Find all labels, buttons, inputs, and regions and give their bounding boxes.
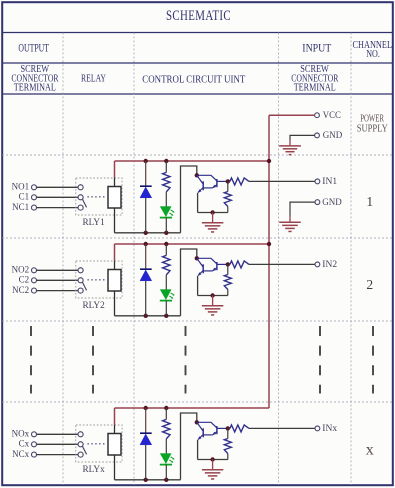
- wire emitter rail: [198, 459, 228, 461]
- wire IN2: [249, 263, 315, 265]
- row separator ch1/ch2: [2, 237, 393, 239]
- junction collector node: [195, 173, 199, 177]
- resistor series LED R2a: [163, 244, 170, 290]
- transistor Qxa: [197, 422, 204, 440]
- ground transistor emitter: [202, 296, 224, 315]
- wire emitter to rail: [197, 276, 199, 296]
- wire coil feed: [114, 408, 116, 434]
- junction diode top: [144, 406, 148, 410]
- svg-text:NC2: NC2: [12, 285, 29, 295]
- transistor Q2b: [197, 258, 228, 271]
- terminal NO1: [12, 182, 37, 192]
- wire coil bottom lead: [114, 455, 116, 480]
- resistor input R1c: [230, 178, 249, 185]
- relay RLY2 dashed box: [76, 261, 122, 298]
- wire INx: [249, 427, 315, 429]
- svg-text:2: 2: [366, 277, 373, 292]
- resistor input R2c: [230, 261, 249, 268]
- relay switch arm: [82, 282, 86, 290]
- wire coil bottom lead: [114, 208, 116, 233]
- wire C2 to relay contact: [36, 279, 78, 281]
- junction collector node: [195, 420, 199, 424]
- wire GND channel 1: [290, 202, 315, 215]
- wire C1 to relay contact: [36, 196, 78, 198]
- svg-text:GND: GND: [323, 131, 343, 141]
- relay actuator dotted link: [88, 196, 106, 198]
- wire VCC bus channel x: [115, 407, 270, 409]
- continuation dashes relay column: [92, 326, 94, 394]
- relay switch arm: [82, 199, 86, 207]
- label POWER SUPPLY: [357, 114, 388, 135]
- column separator 3: [278, 33, 280, 486]
- LED indicator LED1: [160, 207, 175, 233]
- relay contact NCx: [78, 452, 83, 457]
- relay actuator dotted link: [88, 279, 106, 281]
- svg-text:NO1: NO1: [12, 182, 30, 192]
- relay coil RLY2: [108, 270, 121, 292]
- relay contact NOx: [78, 432, 83, 437]
- wire VCC bus channel 1: [115, 160, 270, 162]
- continuation dashes input column: [319, 326, 321, 394]
- terminal GND power: [315, 133, 320, 138]
- ground power supply: [279, 140, 301, 155]
- wire NC2 to relay contact: [36, 290, 78, 292]
- transistor Qxb: [197, 422, 228, 435]
- terminal IN1: [315, 177, 337, 187]
- wire emitter to rail: [197, 193, 199, 213]
- terminal NC2: [12, 285, 36, 295]
- wire emitter to rail: [197, 440, 199, 460]
- row separator power/ch1: [2, 154, 393, 156]
- continuation dashes channel column: [372, 326, 374, 394]
- wire bus riser to collector: [181, 166, 197, 233]
- relay coil RLY1: [108, 187, 121, 209]
- wire VCC vertical bus: [268, 115, 270, 408]
- terminal Cx: [19, 439, 37, 449]
- wire emitter rail: [198, 212, 228, 214]
- wire coil feed: [114, 161, 116, 187]
- svg-text:NOx: NOx: [12, 429, 30, 439]
- junction ground rail: [210, 293, 214, 297]
- junction led bottom: [164, 231, 168, 235]
- wire coil feed: [114, 244, 116, 270]
- junction resistor top: [164, 406, 168, 410]
- wire NO2 to relay contact: [36, 269, 78, 271]
- junction collector node: [195, 256, 199, 260]
- resistor input Rxc: [230, 425, 249, 432]
- svg-text:TERMINAL: TERMINAL: [14, 82, 56, 94]
- relay switch arm: [82, 446, 86, 454]
- wire bottom bus: [115, 479, 181, 481]
- resistor base pulldown R1b: [224, 181, 231, 212]
- svg-text:C2: C2: [19, 275, 30, 285]
- relay coil RLYx: [108, 434, 121, 456]
- junction base node: [226, 179, 230, 183]
- wire NO1 to relay contact: [36, 186, 78, 188]
- terminal NC1: [12, 202, 36, 212]
- header bottom line: [2, 93, 393, 95]
- svg-text:TERMINAL: TERMINAL: [294, 82, 336, 94]
- svg-text:RLY2: RLY2: [83, 300, 105, 310]
- wire bus riser to collector: [181, 249, 197, 316]
- junction ground rail: [210, 210, 214, 214]
- svg-text:INx: INx: [322, 424, 337, 434]
- wire coil bottom lead: [114, 291, 116, 316]
- wire NOx to relay contact: [36, 433, 78, 435]
- relay contact NC2: [78, 288, 83, 293]
- svg-text:SUPPLY: SUPPLY: [357, 124, 388, 135]
- header input SCREW CONNECTOR TERMINAL: [291, 63, 339, 94]
- svg-text:GND: GND: [322, 198, 342, 208]
- resistor base pulldown Rxb: [224, 428, 231, 459]
- relay actuator dotted link: [88, 443, 106, 445]
- flyback diode D2: [140, 244, 152, 316]
- wire NCx to relay contact: [36, 454, 78, 456]
- svg-text:NO.: NO.: [366, 48, 380, 60]
- wire IN1: [249, 180, 315, 182]
- terminal GND channel 1: [315, 198, 342, 208]
- resistor base pulldown R2b: [224, 264, 231, 295]
- column separator 2: [133, 33, 135, 486]
- wire VCC bus channel 2: [115, 243, 270, 245]
- relay contact Cx: [78, 442, 83, 447]
- relay contact NC1: [78, 205, 83, 210]
- wire VCC to bus: [269, 114, 315, 116]
- junction led bottom: [164, 314, 168, 318]
- relay contact C1: [78, 195, 83, 200]
- wire bottom bus: [115, 232, 181, 234]
- title row line: [2, 32, 393, 34]
- continuation dashes output column: [30, 326, 32, 394]
- junction diode top: [144, 242, 148, 246]
- svg-text:1: 1: [366, 194, 373, 209]
- terminal INx: [315, 424, 337, 434]
- LED indicator LED2: [160, 290, 175, 316]
- svg-text:VCC: VCC: [323, 111, 341, 121]
- svg-text:IN2: IN2: [322, 260, 337, 270]
- terminal VCC: [315, 113, 320, 118]
- junction VCC bus channel 1: [267, 159, 271, 163]
- wire bottom bus: [115, 315, 181, 317]
- terminal NCx: [12, 449, 36, 459]
- relay contact C2: [78, 278, 83, 283]
- junction led bottom: [164, 478, 168, 482]
- resistor series LED R1a: [163, 161, 170, 207]
- relay RLY1 dashed box: [76, 178, 122, 215]
- terminal NOx: [12, 429, 37, 439]
- wire NC1 to relay contact: [36, 207, 78, 209]
- terminal C1: [19, 192, 37, 202]
- svg-text:OUTPUT: OUTPUT: [18, 42, 49, 54]
- junction base node: [226, 426, 230, 430]
- junction diode bottom: [144, 478, 148, 482]
- ground transistor emitter: [202, 460, 224, 479]
- svg-text:C1: C1: [19, 192, 30, 202]
- terminal NO2: [12, 265, 37, 275]
- wire Cx to relay contact: [36, 443, 78, 445]
- relay RLYx dashed box: [76, 425, 122, 462]
- column separator 4: [350, 33, 352, 486]
- junction diode bottom: [144, 314, 148, 318]
- header output SCREW CONNECTOR TERMINAL: [11, 63, 59, 94]
- svg-text:NO2: NO2: [12, 265, 30, 275]
- svg-text:RLY1: RLY1: [83, 217, 105, 227]
- row separator dots/chx: [2, 401, 393, 403]
- svg-text:CONTROL CIRCUIT UINT: CONTROL CIRCUIT UINT: [142, 73, 245, 85]
- continuation dashes control column: [185, 326, 187, 394]
- junction VCC bus channel 2: [267, 242, 271, 246]
- resistor series LED Rxa: [163, 408, 170, 454]
- wire GND power: [290, 135, 315, 140]
- LED indicator LEDx: [160, 454, 175, 480]
- transistor Q1a: [197, 175, 204, 193]
- transistor Q1b: [197, 175, 228, 188]
- relay contact NO2: [78, 268, 83, 273]
- header CHANNEL NO.: [353, 39, 393, 60]
- svg-text:INPUT: INPUT: [302, 42, 331, 54]
- wire emitter rail: [198, 295, 228, 297]
- junction diode bottom: [144, 231, 148, 235]
- junction diode top: [144, 159, 148, 163]
- relay contact NO1: [78, 185, 83, 190]
- transistor Q2a: [197, 258, 204, 276]
- ground transistor emitter: [202, 213, 224, 232]
- svg-text:IN1: IN1: [322, 177, 337, 187]
- header row line: [2, 62, 393, 64]
- svg-text:SCHEMATIC: SCHEMATIC: [166, 8, 231, 24]
- svg-text:RELAY: RELAY: [81, 73, 106, 85]
- ground channel 1: [279, 216, 301, 232]
- row separator ch2/dots: [2, 320, 393, 322]
- flyback diode D1: [140, 161, 152, 233]
- flyback diode Dx: [140, 408, 152, 480]
- svg-text:x: x: [366, 441, 374, 458]
- wire bus riser to collector: [181, 413, 197, 480]
- junction base node: [226, 262, 230, 266]
- junction resistor top: [164, 159, 168, 163]
- terminal IN2: [315, 260, 337, 270]
- terminal C2: [19, 275, 37, 285]
- junction ground rail: [210, 457, 214, 461]
- svg-text:NC1: NC1: [12, 202, 29, 212]
- junction resistor top: [164, 242, 168, 246]
- svg-text:RLYx: RLYx: [83, 464, 106, 474]
- svg-text:NCx: NCx: [12, 449, 30, 459]
- svg-text:Cx: Cx: [19, 439, 30, 449]
- column separator 1: [62, 33, 64, 486]
